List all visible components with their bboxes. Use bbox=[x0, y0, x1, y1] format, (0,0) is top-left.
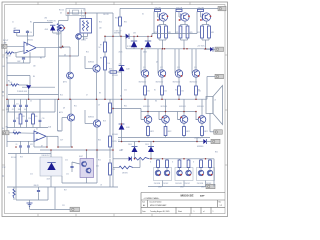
transistor Q9 MJE350 bbox=[88, 116, 101, 127]
svg-text:R30: R30 bbox=[115, 17, 118, 19]
svg-text:Q13: Q13 bbox=[177, 67, 180, 69]
wire Q9 base bbox=[85, 123, 93, 125]
svg-text:0R22: 0R22 bbox=[180, 187, 184, 189]
wire U3b dn bbox=[87, 33, 89, 37]
label 0R22 bbox=[201, 187, 205, 189]
wire R10 up bbox=[109, 99, 111, 103]
wire Q32 base bbox=[159, 119, 162, 121]
svg-text:R21: R21 bbox=[74, 105, 77, 107]
wire fb h bbox=[16, 56, 45, 58]
title block docnum bbox=[150, 201, 168, 207]
transistor Q13 IRFP240 bbox=[200, 13, 211, 21]
wire in2 bbox=[9, 132, 34, 134]
connector J6 bottom bbox=[206, 184, 215, 188]
wire cell1 join bbox=[159, 39, 166, 41]
label Q33 bbox=[179, 106, 186, 108]
svg-text:MJ15024: MJ15024 bbox=[161, 106, 168, 108]
label pair U2 bbox=[175, 183, 190, 185]
svg-text:Q14: Q14 bbox=[194, 67, 197, 69]
wire x55 v2 bbox=[54, 187, 56, 209]
resistor R23a bbox=[197, 26, 204, 38]
label B1 bbox=[120, 95, 122, 97]
svg-text:R1: R1 bbox=[6, 57, 8, 59]
transistor Q11 IRFP240 bbox=[157, 13, 168, 21]
wire Q7 base bbox=[85, 68, 93, 70]
wire Q23 base v bbox=[174, 49, 176, 74]
label C20 bbox=[124, 89, 127, 91]
label R12 bbox=[86, 51, 89, 53]
resistor R44 bbox=[201, 127, 208, 136]
svg-text:R23: R23 bbox=[20, 156, 23, 158]
wire cell1 gate stub bbox=[153, 12, 155, 34]
svg-text:R10: R10 bbox=[99, 21, 102, 23]
wire Q22 collector bbox=[161, 49, 163, 70]
label LED bbox=[44, 17, 48, 19]
wire Q21 base h bbox=[140, 73, 143, 75]
wire lower link bbox=[7, 62, 30, 64]
wire output v bbox=[206, 77, 208, 100]
svg-text:MJ15024: MJ15024 bbox=[197, 106, 204, 108]
svg-text:4R7: 4R7 bbox=[121, 149, 124, 151]
label C1 bbox=[12, 21, 14, 23]
connector J9 CZ1 bbox=[62, 205, 80, 211]
svg-text:C2240: C2240 bbox=[83, 38, 88, 40]
wire D8 dn bbox=[134, 152, 136, 159]
label 3 bbox=[34, 129, 35, 131]
title block rev bbox=[219, 202, 223, 208]
svg-text:Q11: Q11 bbox=[143, 67, 146, 69]
capacitor Cb14.5 bbox=[13, 112, 19, 128]
wire base link bbox=[141, 112, 198, 120]
wire +55 rail top bbox=[120, 7, 218, 9]
wire bottom bank emitter rail bbox=[118, 137, 210, 139]
wire U3a dn bbox=[83, 33, 85, 40]
wire Q22 em2 bbox=[161, 95, 163, 99]
wire Q11 gate link2 bbox=[158, 16, 160, 18]
wire U2 top pin bbox=[27, 33, 29, 43]
capacitor C6a bbox=[16, 141, 22, 153]
label D1 bbox=[115, 30, 117, 32]
svg-text:IN2: IN2 bbox=[6, 126, 9, 128]
label Q24 ref bbox=[194, 67, 197, 69]
wire h13 bbox=[68, 12, 113, 14]
resistor R22b bbox=[186, 26, 193, 38]
node out junction bbox=[60, 47, 61, 48]
svg-text:MJE340: MJE340 bbox=[88, 61, 94, 63]
wire zbox h bbox=[40, 149, 62, 151]
wire cell3 split bbox=[202, 24, 209, 26]
wire Q31 e dn bbox=[147, 123, 149, 126]
label B bbox=[74, 119, 75, 121]
wire h112 bbox=[7, 111, 55, 113]
wire D14 in bbox=[113, 158, 129, 160]
label Q22 bbox=[156, 81, 164, 83]
svg-text:R3: R3 bbox=[8, 80, 10, 82]
resistor R11 label 220OR bbox=[155, 8, 162, 10]
label 4R7 bbox=[121, 149, 124, 151]
resistor R31 bbox=[144, 86, 150, 95]
svg-text:R40: R40 bbox=[124, 105, 127, 107]
wire Q34 e dn bbox=[201, 123, 203, 126]
resistor R34 bbox=[195, 86, 201, 95]
svg-text:E2: E2 bbox=[175, 89, 177, 91]
label G bbox=[172, 161, 174, 163]
svg-text:2SK1058: 2SK1058 bbox=[154, 183, 161, 185]
wire output h bbox=[207, 76, 215, 78]
wire Q13 gate link2 bbox=[201, 16, 203, 18]
wire R6 stub bbox=[14, 51, 24, 53]
capacitor Ca20.5 bbox=[18, 99, 22, 112]
transistor Q6 A970 bbox=[63, 72, 73, 84]
wire R16 dn bbox=[109, 175, 111, 187]
label C5 bbox=[30, 100, 32, 102]
wire x121 a bbox=[120, 36, 122, 66]
svg-text:D1: D1 bbox=[115, 30, 117, 32]
svg-text:R6: R6 bbox=[40, 57, 42, 59]
wire h150 bbox=[62, 149, 113, 151]
wire D2 stub bbox=[133, 37, 135, 42]
transistor Q32 bbox=[162, 116, 170, 124]
transistor Q22 bbox=[158, 70, 165, 77]
label R23 bbox=[20, 156, 23, 158]
capacitor Ca8.5 bbox=[6, 99, 10, 112]
diode D3 zener bbox=[143, 41, 151, 53]
svg-text:47K: 47K bbox=[13, 130, 16, 132]
wire Q7 dn bbox=[96, 72, 98, 99]
wire x62 v bbox=[61, 176, 63, 183]
wire x121 b bbox=[121, 71, 123, 99]
svg-text:E3: E3 bbox=[198, 89, 200, 91]
resistor R5 4R7 bbox=[119, 166, 133, 174]
label U2 bbox=[27, 40, 33, 42]
label Q34 bbox=[197, 106, 204, 108]
svg-text:0R22: 0R22 bbox=[201, 187, 205, 189]
label R8 bbox=[100, 57, 102, 59]
svg-text:R33: R33 bbox=[109, 69, 112, 71]
wire right col bbox=[213, 159, 215, 187]
wire Q23 collector bbox=[178, 49, 180, 70]
svg-text:C20: C20 bbox=[124, 89, 127, 91]
svg-text:Q5: Q5 bbox=[156, 61, 158, 63]
resistor R17 bbox=[9, 187, 16, 200]
label 22K bbox=[33, 65, 36, 67]
wire top bank lower rail bbox=[126, 48, 211, 50]
wire U2 dn bbox=[183, 181, 185, 187]
svg-text:C5: C5 bbox=[30, 100, 32, 102]
svg-text:0R22: 0R22 bbox=[158, 187, 162, 189]
svg-text:D3: D3 bbox=[60, 12, 62, 14]
wire Q12 gate link bbox=[178, 12, 180, 18]
svg-text:Q3: Q3 bbox=[64, 54, 66, 56]
wire U4 out bbox=[46, 135, 58, 137]
wire Q32 c up bbox=[165, 99, 167, 116]
label R3 bbox=[8, 80, 10, 82]
wire Q21 em2 bbox=[144, 95, 146, 99]
svg-text:E1: E1 bbox=[154, 89, 156, 91]
label Q21 bbox=[139, 81, 147, 83]
resistor R11 bbox=[109, 136, 118, 147]
label R6 bbox=[40, 57, 42, 59]
svg-text:R7: R7 bbox=[100, 44, 102, 46]
wire R5b out bbox=[149, 158, 155, 160]
svg-text:GND-W: GND-W bbox=[34, 185, 40, 187]
resistor R13 label 220OR bbox=[198, 8, 205, 10]
svg-text:4148: 4148 bbox=[47, 178, 50, 180]
svg-text:ZD15: ZD15 bbox=[145, 144, 149, 146]
svg-text:R14: R14 bbox=[60, 94, 63, 96]
resistor R6 input bbox=[6, 52, 14, 58]
svg-text:ZD15: ZD15 bbox=[119, 51, 123, 53]
wire D4 to J2 bbox=[213, 48, 215, 50]
resistor R9b bbox=[104, 57, 111, 70]
svg-text:47: 47 bbox=[86, 94, 88, 96]
resistor R62a bbox=[178, 160, 181, 168]
connector J8 input2 bbox=[3, 131, 10, 135]
output pair U1 outline bbox=[154, 168, 172, 181]
diode D4 bbox=[204, 47, 213, 52]
svg-text:C9: C9 bbox=[98, 104, 100, 106]
svg-text:100: 100 bbox=[181, 90, 184, 92]
svg-text:2SJ162: 2SJ162 bbox=[185, 183, 190, 185]
wire rail left ext bbox=[125, 36, 127, 49]
svg-text:10K: 10K bbox=[112, 169, 115, 171]
label RL1 bbox=[11, 157, 17, 159]
wire h20 bbox=[59, 20, 69, 22]
resistor R12 gate bbox=[176, 9, 182, 11]
label 10U bbox=[2, 66, 6, 68]
svg-text:R12: R12 bbox=[86, 51, 89, 53]
label R20 bbox=[98, 139, 101, 141]
label 0R22 bbox=[180, 187, 184, 189]
wire Q33 e dn bbox=[183, 123, 185, 126]
label OUT bbox=[60, 139, 63, 141]
svg-text:2SK1058: 2SK1058 bbox=[175, 183, 182, 185]
speaker LS1 bbox=[206, 86, 223, 125]
wire gate bus bbox=[152, 34, 197, 37]
wire h56 bbox=[59, 55, 79, 57]
connector J4 speaker return bbox=[214, 130, 223, 134]
wire h127 bbox=[7, 127, 48, 129]
wire h147b bbox=[58, 146, 72, 148]
label 22K bbox=[99, 27, 102, 29]
label C2 bbox=[2, 57, 4, 59]
wire Q21 emitter bbox=[144, 77, 146, 86]
wire R5 r v bbox=[139, 159, 141, 168]
wire Q12 gate link2 bbox=[179, 16, 181, 18]
label MJ bbox=[155, 100, 157, 102]
wire h85 r bbox=[19, 84, 28, 86]
svg-text:MJ15024: MJ15024 bbox=[179, 106, 186, 108]
wire Q8 c bbox=[70, 99, 72, 114]
wire Q32 e dn bbox=[165, 123, 167, 126]
resistor R32 bbox=[161, 86, 167, 95]
svg-text:MJ15024: MJ15024 bbox=[143, 106, 150, 108]
label IN2 bbox=[2, 128, 5, 130]
svg-text:NE5534: NE5534 bbox=[27, 40, 33, 42]
capacitor C8 bbox=[34, 185, 41, 200]
svg-text:10: 10 bbox=[9, 193, 11, 195]
svg-text:C3: C3 bbox=[83, 9, 85, 11]
wire Q22 emitter bbox=[161, 77, 163, 86]
wire R9b dn bbox=[104, 70, 106, 99]
wire R22b dn bbox=[187, 38, 189, 40]
svg-text:U2: U2 bbox=[36, 129, 38, 131]
wire -55 rail bbox=[118, 141, 200, 143]
label G bbox=[150, 161, 152, 163]
resistor Rb33 bbox=[32, 112, 38, 128]
resistor R33 bbox=[178, 86, 184, 95]
svg-text:C11: C11 bbox=[16, 103, 19, 105]
wire U1 up a2 bbox=[157, 168, 159, 171]
label J1 bbox=[2, 46, 4, 48]
svg-text:-55 VDC: -55 VDC bbox=[194, 137, 202, 139]
wire U3 up a2 bbox=[200, 168, 202, 171]
label E2 bbox=[175, 89, 177, 91]
wire left bottom rail bbox=[7, 186, 118, 188]
svg-text:R26: R26 bbox=[35, 116, 38, 118]
svg-text:0R22: 0R22 bbox=[204, 131, 208, 133]
label R1 bbox=[6, 57, 8, 59]
wire cell3 join bbox=[202, 39, 209, 41]
wire R11 up2 bbox=[109, 120, 111, 136]
capacitor C1 bbox=[26, 31, 32, 34]
label R14 bbox=[60, 94, 63, 96]
diode D8 zener bbox=[128, 144, 138, 152]
svg-text:INPUT: INPUT bbox=[3, 40, 9, 42]
wire Q11 source down bbox=[163, 21, 165, 24]
svg-text:1K: 1K bbox=[100, 184, 102, 186]
svg-text:100: 100 bbox=[147, 90, 150, 92]
diode D13 gnd mark bbox=[26, 85, 31, 89]
svg-text:C4: C4 bbox=[30, 32, 32, 34]
wire x16 v bbox=[15, 154, 17, 201]
svg-text:C2: C2 bbox=[2, 57, 4, 59]
svg-text:C15: C15 bbox=[30, 173, 33, 175]
wire x97 v bbox=[96, 13, 98, 65]
diode D2 zener bbox=[119, 41, 138, 53]
wire U3 dn bbox=[205, 181, 207, 187]
title block frame bbox=[141, 193, 225, 214]
svg-text:MX50 SE: MX50 SE bbox=[180, 194, 193, 198]
wire x30 v bbox=[29, 76, 31, 86]
svg-text:1: 1 bbox=[213, 211, 214, 213]
wire h75 bbox=[7, 75, 30, 77]
svg-text:MJ: MJ bbox=[155, 100, 157, 102]
diode D12 zener box bbox=[40, 155, 62, 180]
wire x197 link bbox=[196, 138, 198, 142]
transistor Q43a bbox=[198, 170, 203, 175]
wire U2 up a1 bbox=[179, 159, 181, 160]
svg-text:4R7/2W: 4R7/2W bbox=[122, 172, 128, 174]
wire U3 up b2 bbox=[209, 168, 211, 171]
wire R16 up bbox=[109, 159, 111, 163]
wire R10 dn bbox=[109, 113, 111, 120]
wire x97 v2 bbox=[96, 150, 98, 183]
svg-text:2SK1058: 2SK1058 bbox=[197, 183, 204, 185]
wire Q34 c up bbox=[201, 99, 203, 116]
diode D14 MUR bbox=[119, 150, 132, 161]
wire R9 up bbox=[104, 37, 106, 43]
label +B bbox=[119, 63, 121, 65]
label R2 bbox=[30, 21, 32, 23]
wire Q21 base v bbox=[140, 49, 142, 74]
resistor R19 box bbox=[14, 28, 25, 36]
wire R28 dn bbox=[58, 32, 60, 99]
svg-text:4148: 4148 bbox=[126, 68, 130, 70]
svg-text:LS: LS bbox=[214, 99, 216, 101]
transistor Q34 bbox=[198, 116, 206, 124]
wire x68 v bbox=[67, 13, 69, 21]
transistor Q7 MJE340 bbox=[88, 61, 100, 72]
resistor R13 gate bbox=[198, 9, 204, 11]
label U4 bbox=[36, 129, 38, 131]
dual transistor U3 2SK30 bbox=[80, 19, 92, 42]
wire h183 bbox=[62, 182, 97, 184]
wire Q23 emitter bbox=[178, 77, 180, 86]
svg-text:ZD15: ZD15 bbox=[128, 144, 132, 146]
wire R8 up bbox=[119, 8, 121, 17]
label 0V bbox=[2, 95, 4, 97]
wire U1 up b2 bbox=[166, 168, 168, 171]
svg-text:G1: G1 bbox=[142, 13, 144, 15]
wire Q5 link bbox=[81, 36, 87, 38]
diode D6 UF5408 bbox=[112, 124, 130, 136]
wire Q33 base bbox=[178, 119, 181, 121]
wire Q13 source down bbox=[206, 21, 208, 24]
wire fb up bbox=[44, 48, 46, 57]
resistor R10 bbox=[109, 103, 114, 113]
svg-text:+55 VDC: +55 VDC bbox=[197, 46, 205, 48]
svg-text:R8: R8 bbox=[100, 57, 102, 59]
svg-text:C6: C6 bbox=[16, 144, 18, 146]
wire r18 l bbox=[108, 71, 110, 73]
wire x48 v bbox=[47, 187, 49, 200]
wire h131 bbox=[58, 130, 63, 132]
svg-text:10U: 10U bbox=[24, 109, 27, 111]
wire r18 r bbox=[117, 71, 122, 73]
label D3 bbox=[60, 12, 62, 14]
wire Q23 em2 bbox=[178, 95, 180, 99]
label R21 bbox=[74, 105, 77, 107]
diode D5 UF5408 bbox=[112, 66, 130, 78]
label D7 bbox=[41, 145, 43, 147]
resistor R16 bbox=[109, 163, 115, 175]
wire U3 up a1 bbox=[200, 159, 202, 160]
wire x58 v2 bbox=[57, 136, 59, 147]
svg-text:2SJ162: 2SJ162 bbox=[163, 183, 168, 185]
wire bottom out bbox=[148, 186, 206, 188]
svg-text:22K: 22K bbox=[99, 27, 102, 29]
wire fb l bbox=[15, 53, 17, 57]
svg-text:1K/1W: 1K/1W bbox=[112, 141, 117, 143]
svg-text:MULT: MULT bbox=[79, 156, 83, 158]
sheet background bbox=[0, 0, 230, 219]
transistor Q24 bbox=[192, 70, 199, 77]
wire Q22 base v bbox=[157, 49, 159, 74]
svg-text:R24: R24 bbox=[58, 130, 61, 132]
resistor R23b bbox=[208, 26, 215, 38]
svg-text:0R5: 0R5 bbox=[211, 32, 214, 34]
wire Q6 c bbox=[69, 47, 71, 72]
label -55VDC bbox=[194, 137, 202, 139]
capacitor Cb40 bbox=[39, 112, 45, 128]
svg-text:R35: R35 bbox=[124, 21, 127, 23]
output pair U3 outline bbox=[197, 168, 215, 181]
wire x62 vq8 bbox=[61, 118, 63, 132]
label R9 bbox=[99, 92, 101, 94]
svg-text:100: 100 bbox=[108, 63, 111, 65]
wire R44 rail bbox=[201, 136, 203, 138]
